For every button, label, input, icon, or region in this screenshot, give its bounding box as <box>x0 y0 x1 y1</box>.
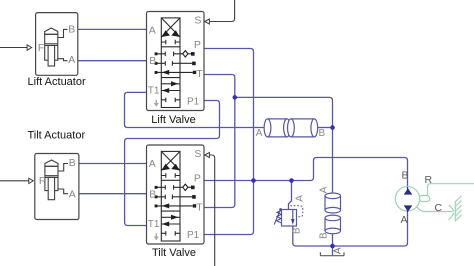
svg-text:Lift Valve: Lift Valve <box>151 114 195 126</box>
svg-text:B: B <box>69 157 76 169</box>
svg-text:F: F <box>38 42 44 54</box>
svg-text:F: F <box>39 175 45 187</box>
svg-text:Tilt Valve: Tilt Valve <box>152 247 196 259</box>
svg-text:R: R <box>425 174 433 186</box>
svg-text:B: B <box>319 232 330 239</box>
svg-text:A: A <box>332 247 343 254</box>
svg-text:B: B <box>402 170 409 182</box>
svg-text:A: A <box>318 186 329 193</box>
svg-text:Lift Actuator: Lift Actuator <box>28 76 86 88</box>
svg-text:A: A <box>401 214 408 226</box>
svg-text:A: A <box>256 128 263 139</box>
svg-text:B: B <box>319 128 326 139</box>
svg-text:C: C <box>435 202 443 214</box>
svg-text:A: A <box>68 54 75 66</box>
svg-text:Tilt Actuator: Tilt Actuator <box>27 130 85 142</box>
svg-text:B: B <box>291 227 302 234</box>
svg-text:A: A <box>69 188 76 200</box>
svg-text:B: B <box>68 23 75 35</box>
svg-text:A: A <box>294 195 305 202</box>
